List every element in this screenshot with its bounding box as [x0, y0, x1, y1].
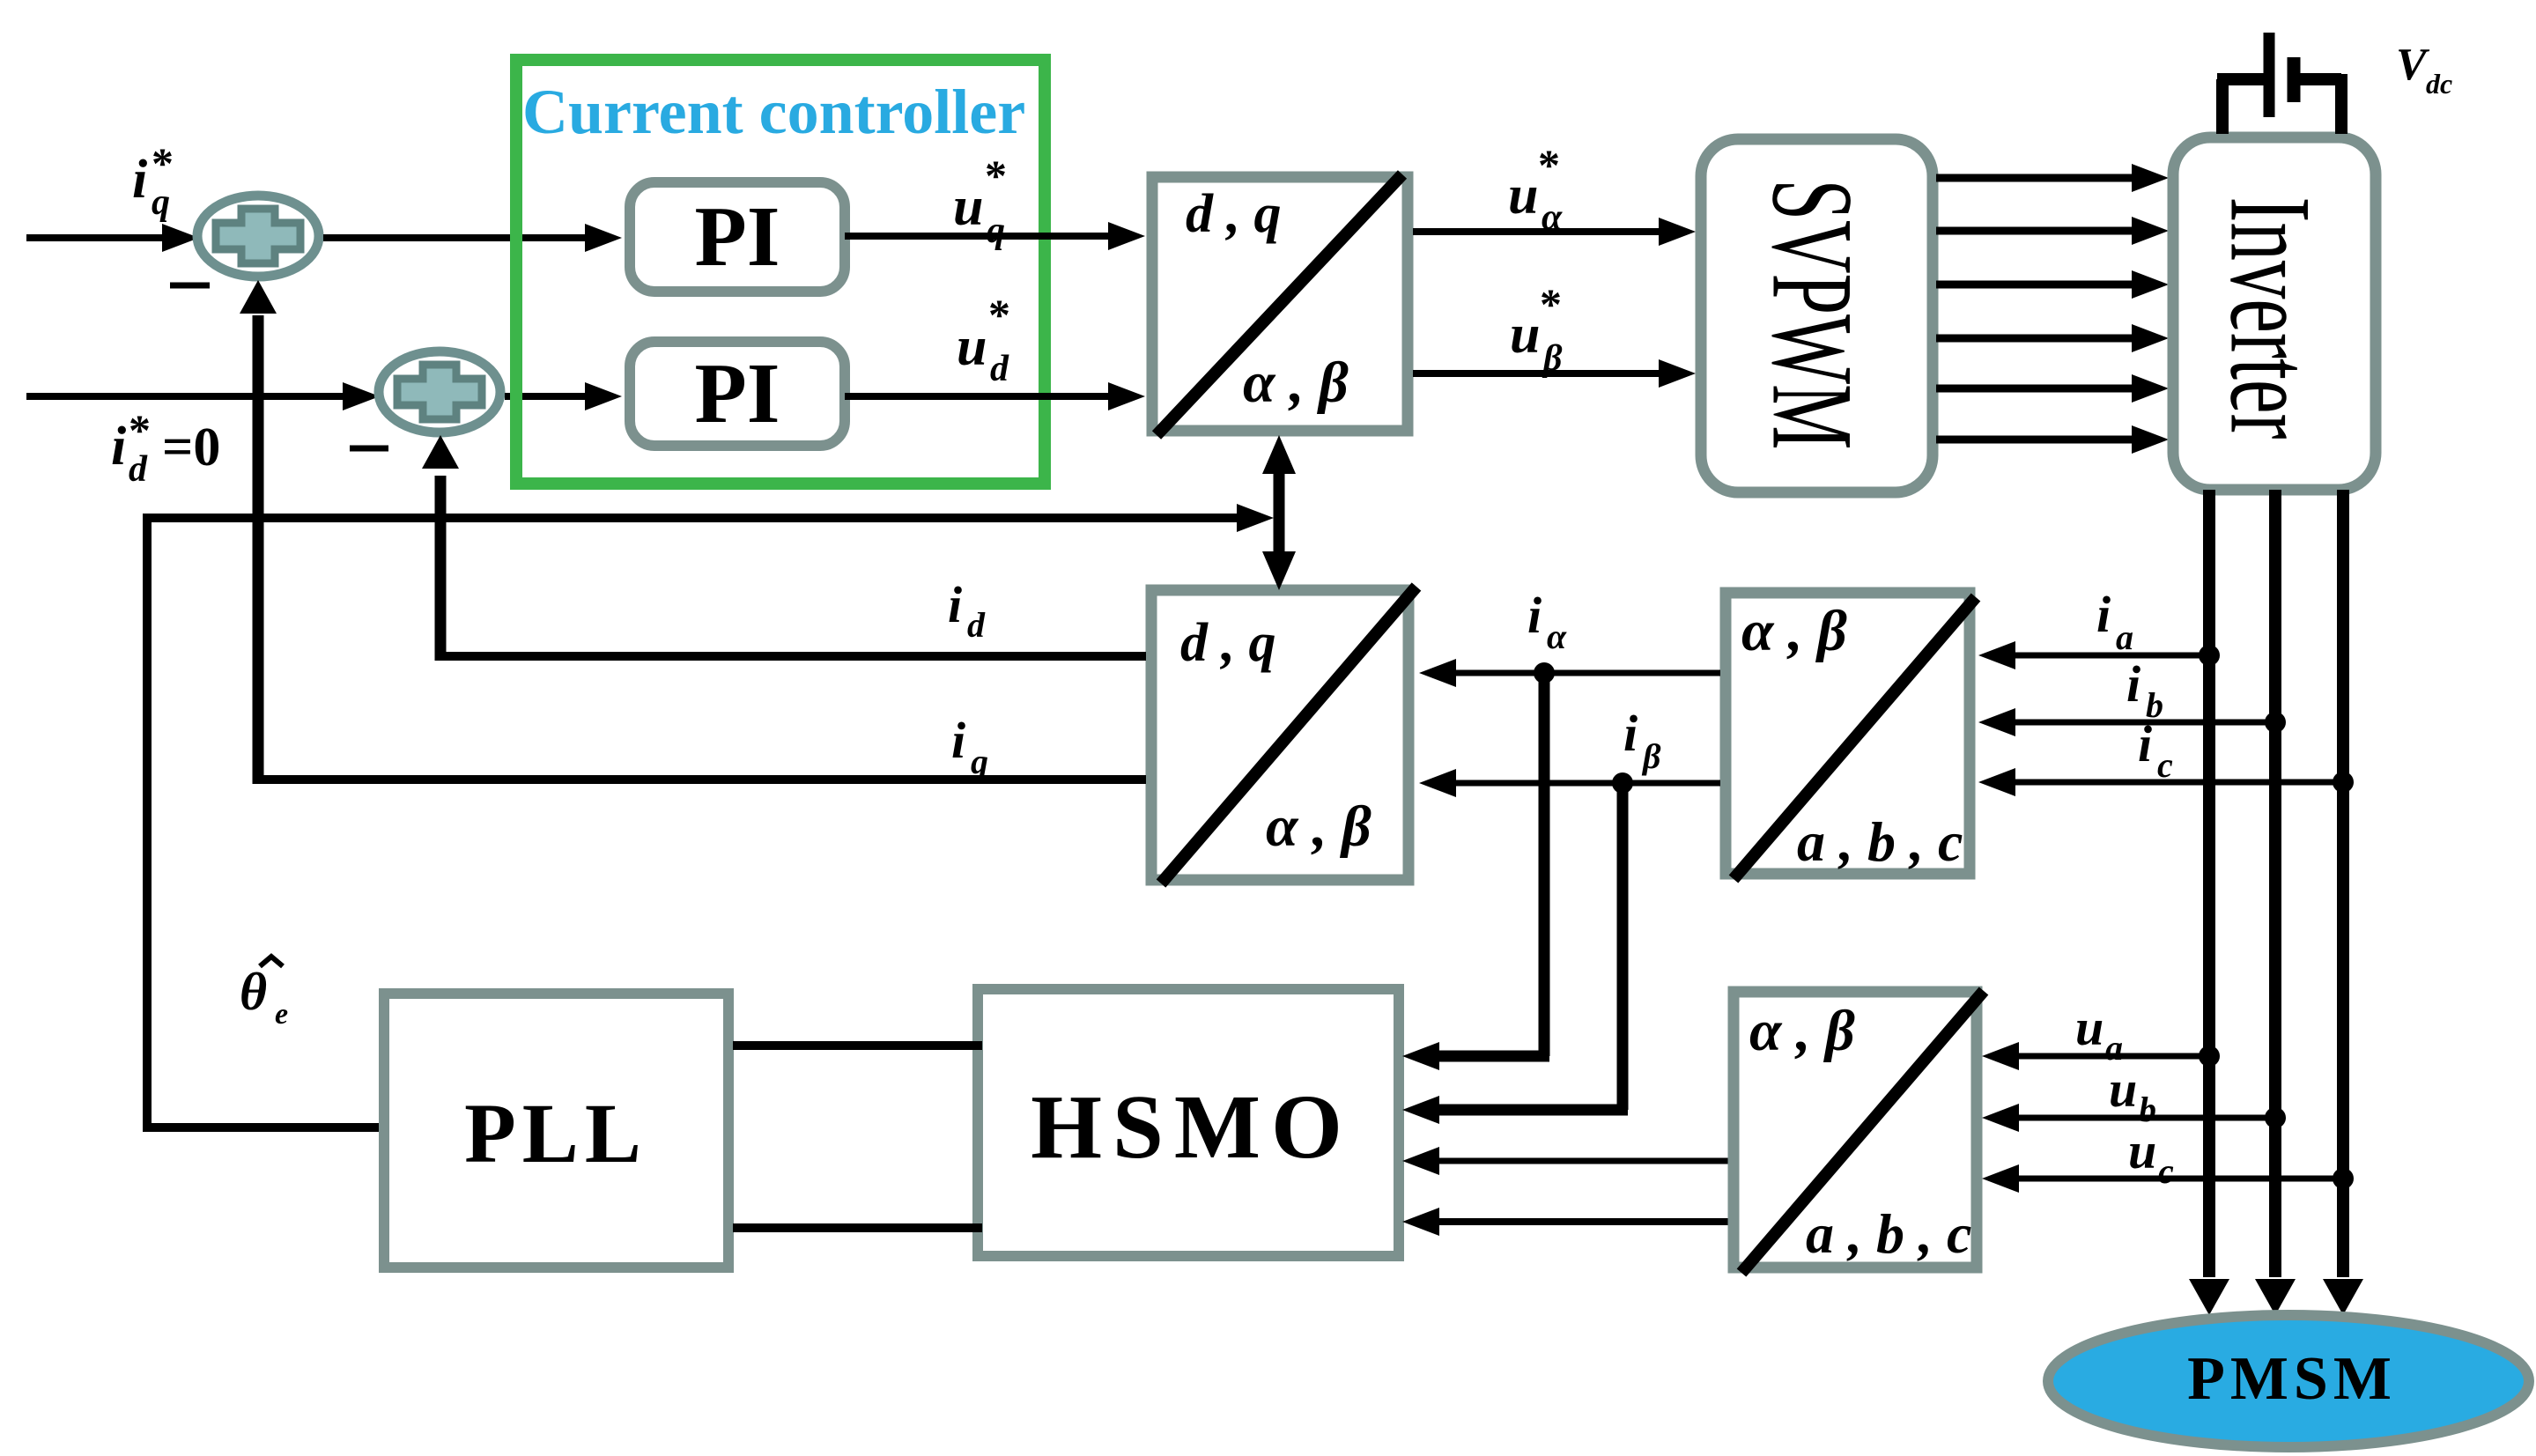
HSMO block	[978, 989, 1399, 1256]
wire ub voltage measurement	[1982, 1104, 2275, 1132]
svg-text:d , q: d , q	[1186, 184, 1282, 244]
wire ib current measurement	[1978, 708, 2275, 736]
wire ic current measurement	[1978, 768, 2343, 796]
wire PI2 output ud*	[845, 382, 1145, 410]
svg-text:i: i	[111, 417, 126, 477]
svg-text:d: d	[129, 449, 148, 490]
wire theta to T1 and T3 bidirectional	[1262, 435, 1296, 590]
svg-text:α , β: α , β	[1741, 599, 1847, 663]
svg-text:α: α	[1542, 197, 1563, 238]
svg-text:q: q	[971, 742, 988, 781]
node label iq*	[132, 138, 174, 223]
svg-text:PMSM: PMSM	[2187, 1345, 2397, 1413]
phase wire c from inverter to PMSM	[2323, 490, 2363, 1315]
svg-text:PI: PI	[695, 189, 780, 284]
junction dot i-beta	[1612, 772, 1633, 794]
PI controller block PI1	[630, 182, 845, 292]
phase wire a from inverter to PMSM	[2189, 490, 2229, 1315]
svg-text:e: e	[275, 998, 288, 1031]
wire ua voltage measurement	[1982, 1042, 2209, 1070]
svg-text:a: a	[2116, 617, 2133, 657]
svg-text:c: c	[2157, 745, 2173, 785]
svg-text:SVPWM: SVPWM	[1749, 180, 1878, 450]
svg-text:c: c	[2158, 1151, 2174, 1191]
node label u-beta*	[1510, 279, 1563, 379]
svg-text:q: q	[987, 211, 1005, 251]
junction dot uc	[2333, 1168, 2354, 1189]
junction dot i-alpha	[1534, 662, 1555, 684]
svg-text:i: i	[132, 150, 147, 210]
svg-text:u: u	[1510, 305, 1540, 365]
wire PI1 output uq*	[845, 222, 1145, 250]
node label i-alpha	[1527, 587, 1567, 656]
svg-text:q: q	[152, 182, 170, 223]
transform block T4 alpha-beta to abc voltages	[1734, 991, 1984, 1273]
node label theta-e estimated	[240, 957, 288, 1031]
node label ua	[2075, 999, 2123, 1068]
wire S1 to PI1	[323, 224, 622, 252]
wire T1 output u-beta*	[1413, 359, 1696, 388]
svg-text:a , b , c: a , b , c	[1797, 810, 1963, 873]
svg-text:i: i	[948, 576, 962, 633]
node label id*=0	[111, 405, 220, 490]
transform block T1 dq to alpha-beta	[1152, 174, 1408, 435]
svg-text:u: u	[2128, 1122, 2156, 1179]
node label uq*	[953, 151, 1007, 251]
svg-text:*: *	[1540, 279, 1562, 329]
junction dot ua	[2199, 1046, 2220, 1067]
svg-text:dc: dc	[2426, 68, 2452, 100]
SVPWM block	[1701, 139, 1933, 492]
svg-text:HSMO: HSMO	[1031, 1076, 1353, 1178]
svg-text:α , β: α , β	[1266, 795, 1372, 859]
summing junction S1	[197, 196, 319, 277]
PMSM motor	[2048, 1315, 2529, 1447]
wire theta feedback from PLL	[143, 504, 1274, 1132]
svg-text:i: i	[1527, 587, 1542, 644]
wire ia current measurement	[1978, 641, 2209, 669]
transform block T3 dq to alpha-beta feedback	[1151, 587, 1416, 883]
svg-text:α , β: α , β	[1243, 351, 1349, 415]
svg-text:u: u	[953, 177, 983, 237]
Inverter block	[2173, 137, 2376, 490]
node label ia	[2096, 586, 2133, 657]
svg-text:*: *	[1538, 140, 1560, 189]
minus sign at S2	[350, 446, 388, 452]
svg-text:i: i	[951, 712, 965, 769]
svg-text:*: *	[152, 138, 174, 188]
wire u-beta T4 to HSMO	[1402, 1208, 1728, 1236]
PLL block	[384, 994, 728, 1268]
svg-text:a , b , c: a , b , c	[1806, 1202, 1971, 1265]
wire HSMO to PLL lower	[733, 1223, 982, 1232]
svg-text:*: *	[988, 290, 1010, 339]
wire iq* reference input	[26, 224, 199, 252]
transform block T2 alpha-beta to abc currents	[1726, 593, 1976, 879]
svg-text:i: i	[2138, 715, 2152, 772]
svg-text:i: i	[1623, 705, 1638, 762]
gate signal wires SVPWM to Inverter	[1936, 164, 2169, 454]
wire u-alpha T4 to HSMO	[1402, 1147, 1728, 1175]
svg-text:PI: PI	[695, 346, 780, 440]
junction dot ub	[2265, 1107, 2286, 1128]
svg-text:d , q: d , q	[1180, 613, 1276, 673]
DC source battery	[2217, 33, 2341, 134]
node label u-alpha*	[1508, 140, 1563, 238]
svg-text:Inverter: Inverter	[2207, 197, 2336, 440]
PI controller block PI2	[630, 342, 845, 446]
svg-text:θ: θ	[240, 963, 267, 1021]
wire i-alpha drop to HSMO	[1402, 673, 1549, 1070]
svg-text:Current controller: Current controller	[522, 77, 1025, 147]
wire iq feedback to S1	[240, 280, 1146, 784]
wire S2 to PI2	[505, 382, 622, 410]
wire id feedback to S2	[422, 435, 1146, 661]
wire i-beta T2 to T3	[1419, 769, 1720, 797]
node label ud*	[957, 290, 1010, 389]
svg-text:i: i	[2126, 655, 2140, 713]
svg-text:PLL: PLL	[464, 1086, 647, 1180]
svg-text:*: *	[129, 405, 151, 455]
wire i-alpha T2 to T3	[1419, 659, 1720, 687]
svg-text:d: d	[990, 349, 1009, 389]
wire id* reference input	[26, 382, 380, 410]
svg-text:u: u	[957, 317, 987, 377]
wire uc voltage measurement	[1982, 1164, 2343, 1193]
node label ub	[2109, 1061, 2156, 1129]
node label ib	[2126, 655, 2163, 725]
wire T1 output u-alpha*	[1413, 218, 1696, 246]
node label iq	[951, 712, 988, 781]
svg-text:u: u	[2109, 1061, 2137, 1118]
svg-text:α: α	[1547, 617, 1567, 656]
svg-text:β: β	[1641, 736, 1661, 776]
svg-text:u: u	[1508, 166, 1538, 225]
junction dot ib	[2265, 712, 2286, 733]
current controller green frame	[516, 60, 1045, 484]
summing junction S2	[379, 351, 500, 432]
junction dot ia	[2199, 645, 2220, 666]
node label Vdc	[2396, 40, 2452, 100]
svg-text:=0: =0	[162, 418, 220, 477]
node label id	[948, 576, 986, 645]
svg-text:d: d	[967, 605, 986, 645]
svg-text:*: *	[985, 151, 1007, 200]
node label ic	[2138, 715, 2173, 785]
svg-text:α , β: α , β	[1749, 999, 1855, 1063]
wire i-beta drop to HSMO	[1402, 783, 1628, 1124]
junction dot ic	[2333, 772, 2354, 793]
minus sign at S1	[170, 283, 210, 289]
node label uc	[2128, 1122, 2174, 1191]
svg-text:β: β	[1542, 338, 1563, 379]
node label i-beta	[1623, 705, 1661, 776]
svg-text:i: i	[2096, 586, 2111, 643]
wire HSMO to PLL upper	[733, 1041, 982, 1050]
phase wire b from inverter to PMSM	[2255, 490, 2296, 1315]
svg-text:u: u	[2075, 999, 2103, 1056]
